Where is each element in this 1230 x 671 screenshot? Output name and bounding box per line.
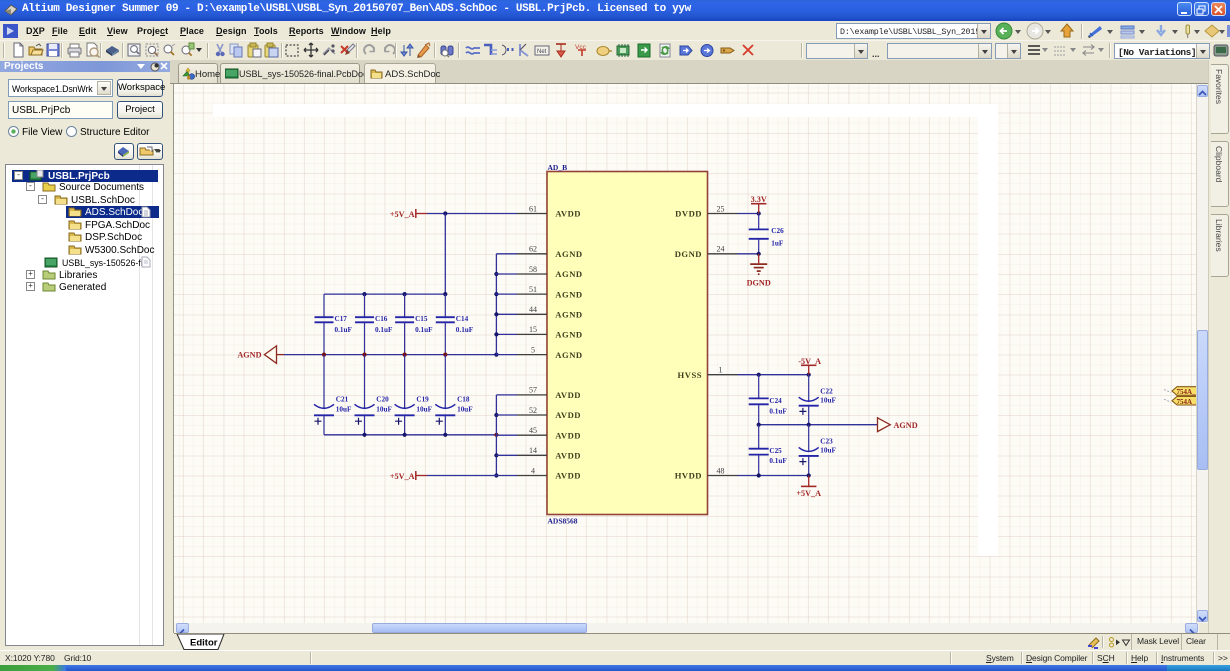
wire pin 1 HVSS to nodes bbox=[738, 374, 809, 376]
svg-text:10uF: 10uF bbox=[820, 396, 836, 404]
capacitor C19 10uF polarized bbox=[395, 355, 433, 435]
svg-text:C22: C22 bbox=[820, 388, 833, 396]
svg-text:62: 62 bbox=[529, 245, 537, 254]
node junctions on AGND feed bbox=[494, 272, 498, 296]
svg-text:61: 61 bbox=[529, 204, 537, 213]
port AGND (right) bbox=[878, 418, 918, 432]
svg-text:C18: C18 bbox=[457, 395, 470, 403]
pins U1 left side with pin numbers bbox=[517, 204, 738, 475]
svg-text:52: 52 bbox=[529, 406, 537, 415]
svg-text:754A_1: 754A_1 bbox=[1177, 388, 1197, 396]
svg-text:HVSS: HVSS bbox=[678, 370, 702, 380]
svg-text:HVDD: HVDD bbox=[675, 471, 702, 481]
power port 3.3V bbox=[751, 195, 767, 213]
svg-text:AVDD: AVDD bbox=[555, 451, 581, 461]
svg-text:1uF: 1uF bbox=[771, 240, 784, 248]
svg-text:DGND: DGND bbox=[675, 249, 702, 259]
svg-text:45: 45 bbox=[529, 426, 537, 435]
wire AGND feed vertical to pins 62-5 bbox=[495, 254, 497, 355]
node off-sheet connector 754A_1 bbox=[1164, 387, 1200, 397]
svg-text:C25: C25 bbox=[769, 447, 782, 455]
wire pin 52 connection bbox=[496, 414, 517, 416]
wire +5V_A to AVDD feed bbox=[427, 475, 496, 477]
svg-text:10uF: 10uF bbox=[820, 446, 836, 454]
svg-text:25: 25 bbox=[717, 204, 725, 213]
svg-text:+5V_A: +5V_A bbox=[796, 489, 821, 498]
svg-text:5: 5 bbox=[531, 345, 535, 354]
capacitor C14 0.1uF bbox=[436, 294, 474, 355]
port AGND (left) bbox=[237, 346, 284, 363]
wire pin 14 connection bbox=[496, 454, 517, 456]
svg-text:0.1uF: 0.1uF bbox=[335, 326, 353, 334]
node off-sheet connector 754A_2 bbox=[1164, 396, 1200, 406]
wire cap top rail (+5V) bbox=[324, 293, 445, 295]
wire pin 57 connection bbox=[496, 394, 517, 396]
svg-text:0.1uF: 0.1uF bbox=[415, 326, 433, 334]
capacitor C15 0.1uF bbox=[395, 294, 433, 355]
capacitor C23 10uF polarized bbox=[799, 425, 837, 476]
svg-text:DGND: DGND bbox=[747, 279, 771, 288]
radios bbox=[8, 126, 19, 137]
power port -5V_A bbox=[798, 357, 821, 375]
svg-text:10uF: 10uF bbox=[457, 406, 473, 414]
wire pin 58 connection bbox=[496, 273, 517, 275]
node junctions on bottom rail bbox=[362, 433, 498, 437]
svg-text:AD_B: AD_B bbox=[548, 163, 568, 172]
svg-text:0.1uF: 0.1uF bbox=[769, 457, 787, 465]
svg-text:Editor: Editor bbox=[190, 638, 218, 649]
svg-text:AGND: AGND bbox=[894, 421, 918, 430]
capacitor C26 1uF bbox=[749, 214, 784, 254]
svg-text:14: 14 bbox=[529, 446, 537, 455]
power port +5V_A (bottom right) bbox=[796, 476, 821, 498]
power port +5V_A (top left) bbox=[390, 209, 427, 219]
wire bottom rail (+5V_A lower) bbox=[324, 434, 496, 436]
svg-text:C23: C23 bbox=[820, 437, 833, 445]
power port +5V_A (bottom left) bbox=[390, 471, 427, 481]
svg-text:15: 15 bbox=[529, 325, 537, 334]
node junctions on AGND rail bbox=[322, 353, 499, 357]
canvas / schematic inserted later bbox=[173, 84, 174, 633]
wire pin 15 connection bbox=[496, 333, 517, 335]
capacitor C21 10uF polarized bbox=[314, 355, 352, 435]
svg-text:Net: Net bbox=[537, 49, 547, 55]
svg-text:C20: C20 bbox=[376, 395, 389, 403]
svg-text:10uF: 10uF bbox=[336, 406, 352, 414]
svg-text:0.1uF: 0.1uF bbox=[456, 326, 474, 334]
pin names U1 bbox=[555, 209, 702, 481]
capacitor C20 10uF polarized bbox=[355, 355, 393, 435]
svg-text:AVDD: AVDD bbox=[555, 430, 581, 440]
wire +5V_A to pin 61 bbox=[427, 213, 517, 215]
svg-text:1: 1 bbox=[719, 366, 723, 375]
svg-text:C15: C15 bbox=[415, 315, 428, 323]
svg-text:AGND: AGND bbox=[555, 310, 582, 320]
svg-text:C19: C19 bbox=[416, 395, 429, 403]
svg-text:+5V_A: +5V_A bbox=[390, 472, 415, 481]
wire pin 24 DGND to node bbox=[738, 253, 759, 255]
svg-text:AVDD: AVDD bbox=[555, 390, 581, 400]
two tool buttons bbox=[114, 143, 134, 160]
svg-text:AVDD: AVDD bbox=[555, 209, 581, 219]
capacitor C17 0.1uF bbox=[315, 294, 353, 355]
svg-text:+5V_A: +5V_A bbox=[390, 210, 415, 219]
wire pin 44 connection bbox=[496, 313, 517, 315]
svg-text:58: 58 bbox=[529, 265, 537, 274]
wire AGND rail bbox=[284, 354, 496, 356]
svg-text:10uF: 10uF bbox=[416, 406, 432, 414]
svg-text:AGND: AGND bbox=[555, 350, 582, 360]
svg-text:10uF: 10uF bbox=[376, 406, 392, 414]
wire pin 62 connection bbox=[496, 253, 517, 255]
wire pin 4 connection bbox=[496, 475, 517, 477]
op-amp U1 ADS8568 (yellow component body) bbox=[547, 163, 708, 526]
svg-text:AVDD: AVDD bbox=[555, 410, 581, 420]
svg-text:AGND: AGND bbox=[555, 269, 582, 279]
node junction at +5V_A rail x445 bbox=[443, 211, 447, 215]
svg-text:44: 44 bbox=[529, 305, 537, 314]
svg-text:24: 24 bbox=[717, 245, 725, 254]
svg-text:AGND: AGND bbox=[237, 351, 261, 360]
svg-text:3.3V: 3.3V bbox=[751, 195, 767, 204]
svg-text:C26: C26 bbox=[771, 227, 784, 235]
wire pin 5 connection bbox=[496, 354, 517, 356]
svg-text:48: 48 bbox=[717, 466, 725, 475]
wire pin 48 HVDD to nodes bbox=[738, 475, 809, 477]
wire pin 25 DVDD to node bbox=[738, 213, 759, 215]
svg-text:754A_2: 754A_2 bbox=[1177, 398, 1197, 406]
svg-text:C21: C21 bbox=[336, 395, 349, 403]
svg-text:57: 57 bbox=[529, 386, 537, 395]
tree bbox=[5, 164, 164, 646]
wire pin 45 connection bbox=[496, 434, 517, 436]
capacitor C18 10uF polarized bbox=[435, 355, 473, 435]
wire pin 51 connection bbox=[496, 293, 517, 295]
wire AGND mid rail right bbox=[759, 424, 878, 426]
svg-text:AGND: AGND bbox=[555, 289, 582, 299]
capacitor C16 0.1uF bbox=[355, 294, 393, 355]
svg-text:ADS8568: ADS8568 bbox=[548, 517, 578, 526]
capacitor C25 0.1uF bbox=[749, 425, 788, 476]
svg-text:C14: C14 bbox=[456, 315, 469, 323]
node junctions on cap top rail bbox=[362, 292, 447, 296]
svg-text:0.1uF: 0.1uF bbox=[769, 407, 787, 415]
capacitor C24 0.1uF bbox=[749, 375, 788, 425]
wire vertical +5V rail down to cap top rail bbox=[444, 214, 446, 295]
svg-text:C17: C17 bbox=[335, 315, 348, 323]
node junctions on AVDD feed bbox=[494, 413, 498, 478]
svg-text:AVDD: AVDD bbox=[555, 471, 581, 481]
svg-text:AGND: AGND bbox=[555, 330, 582, 340]
capacitor C22 10uF polarized bbox=[799, 375, 837, 425]
svg-text:AGND: AGND bbox=[555, 249, 582, 259]
wire AVDD feed vertical to pins 57-4 bbox=[495, 395, 497, 476]
svg-text:DVDD: DVDD bbox=[675, 209, 702, 219]
svg-text:C16: C16 bbox=[375, 315, 388, 323]
svg-text:0.1uF: 0.1uF bbox=[375, 326, 393, 334]
svg-text:4: 4 bbox=[531, 466, 535, 475]
svg-text:51: 51 bbox=[529, 285, 537, 294]
ground DGND bbox=[747, 254, 771, 288]
svg-text:C24: C24 bbox=[769, 397, 782, 405]
